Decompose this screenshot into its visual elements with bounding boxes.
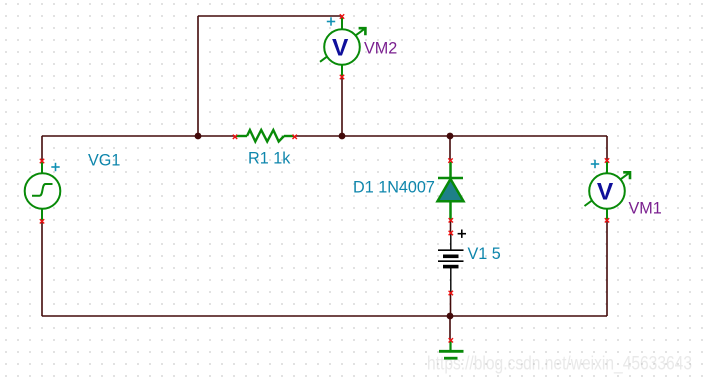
plus sign VM1 bbox=[591, 160, 599, 168]
wire right vertical to VM1 bbox=[606, 136, 608, 161]
pin mark D1 top bbox=[448, 158, 452, 162]
voltmeter VM2 bbox=[320, 17, 365, 77]
pin mark V1 bottom bbox=[449, 291, 453, 295]
svg-text:D1 1N4007: D1 1N4007 bbox=[353, 178, 435, 196]
voltmeter VM1 bbox=[585, 161, 631, 220]
pin mark VM2 bottom bbox=[340, 75, 344, 79]
pin mark ground bbox=[449, 338, 453, 342]
wire top-left vertical bbox=[197, 16, 199, 136]
junction node at R1 left / top loop bbox=[195, 133, 202, 140]
wire VG1 to bottom bbox=[41, 221, 43, 316]
svg-text:VM2: VM2 bbox=[364, 40, 397, 58]
pin mark V1 top bbox=[449, 231, 453, 235]
wire top horizontal bbox=[198, 15, 342, 17]
pin mark VM2 top bbox=[340, 14, 344, 18]
plus sign VM2 bbox=[327, 17, 335, 25]
wire junction to diode bbox=[449, 136, 451, 161]
pin mark VM1 bottom bbox=[605, 218, 609, 222]
svg-text:VG1: VG1 bbox=[88, 152, 120, 170]
plus sign battery V1 bbox=[458, 230, 466, 238]
svg-text:V: V bbox=[332, 35, 349, 62]
diode D1 bbox=[438, 162, 464, 220]
voltage source VG1 bbox=[25, 161, 61, 221]
wire middle horizontal left bbox=[42, 135, 235, 137]
wire battery to bottom bbox=[450, 293, 452, 316]
pin mark R1 left bbox=[233, 135, 237, 139]
pin mark VG1 top bbox=[40, 159, 44, 163]
pin mark D1 bottom bbox=[449, 218, 453, 222]
wire bottom horizontal bbox=[42, 315, 607, 317]
wire VM1 to bottom bbox=[606, 220, 608, 316]
wire middle horizontal right bbox=[295, 135, 607, 137]
wire diode to battery bbox=[450, 220, 452, 233]
svg-text:R1 1k: R1 1k bbox=[248, 149, 291, 167]
resistor R1 bbox=[236, 130, 294, 142]
pin mark R1 right bbox=[293, 135, 297, 139]
svg-text:V1 5: V1 5 bbox=[468, 245, 501, 263]
junction node at diode top bbox=[447, 133, 454, 140]
wire left vertical to VG1 bbox=[41, 136, 43, 161]
junction node at ground bbox=[447, 313, 454, 320]
pin mark VM1 top bbox=[605, 158, 609, 162]
wire ground stub bbox=[449, 316, 451, 340]
junction node at VM2 bottom bbox=[339, 133, 346, 140]
ground bbox=[439, 340, 464, 358]
plus sign VG1 bbox=[51, 163, 59, 171]
battery V1 bbox=[438, 234, 464, 293]
svg-text:VM1: VM1 bbox=[629, 200, 662, 218]
pin mark VG1 bottom bbox=[40, 219, 44, 223]
svg-text:V: V bbox=[597, 179, 614, 206]
wire VM2 bottom bbox=[341, 77, 343, 136]
